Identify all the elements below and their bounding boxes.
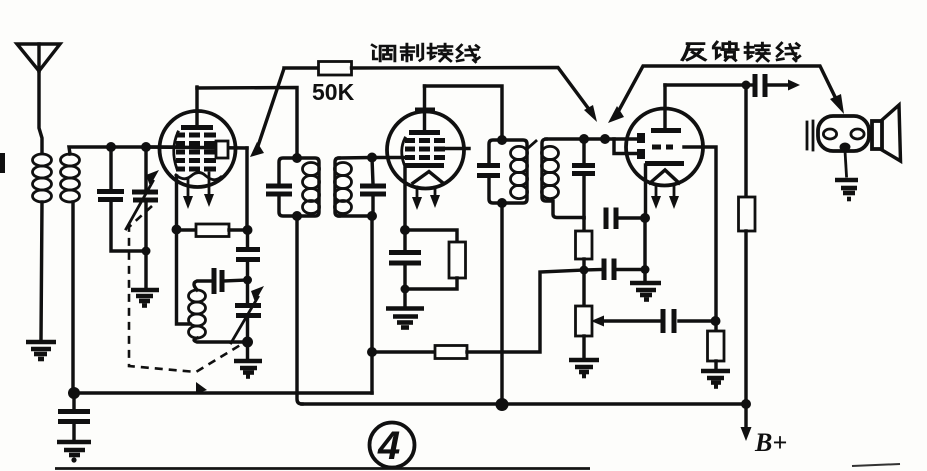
V1 grid side box — [216, 141, 228, 158]
resistor R5 (screen dropper) — [708, 331, 725, 369]
wire grid bus into tube V1 — [146, 147, 247, 148]
V3 cathode V — [650, 170, 679, 183]
V3 filament arrow right — [669, 186, 679, 209]
node V2 cathode gnd — [401, 285, 410, 294]
earphone unit — [818, 116, 869, 152]
antenna — [17, 44, 60, 152]
V3 cathode lead — [644, 165, 647, 218]
bus1 (AVC return) — [74, 391, 372, 394]
V1 grid out wire — [245, 148, 248, 230]
V1 cathode lead — [175, 176, 178, 229]
variable capacitor VC1 — [126, 147, 159, 288]
V2 left bracket — [402, 138, 405, 164]
node B (VC1 tap) — [141, 142, 151, 152]
coupling tick — [528, 141, 536, 148]
capacitor C5 (V3 grid) — [572, 139, 595, 218]
dashed gang link — [129, 206, 242, 372]
svg-text:4: 4 — [377, 424, 400, 468]
V3 lower bar — [645, 161, 684, 166]
coil L1 antenna primary — [33, 154, 52, 202]
B+ arrow — [741, 404, 752, 441]
node tank1 top — [292, 153, 302, 163]
node tank2 bottom — [497, 198, 507, 208]
tube V2 (IF amplifier) — [387, 112, 464, 189]
capacitor C6 (cathode coupling upper) — [606, 208, 645, 230]
tube V1 (converter) — [160, 111, 236, 187]
wire L2 top to grid bus — [69, 147, 176, 154]
potentiometer R4 (volume) — [576, 270, 593, 357]
V3 plate lead — [663, 85, 666, 128]
L3 bottom lead — [194, 338, 247, 342]
ground (osc) — [234, 342, 262, 377]
node IF1 sec top — [367, 153, 377, 163]
capacitor C3 (osc feedback) — [214, 268, 247, 294]
wire L1 bottom to ground — [41, 202, 42, 340]
svg-text:50K: 50K — [312, 79, 355, 105]
V2 top bar artifact — [415, 108, 435, 113]
ground (earphone) — [835, 180, 858, 199]
resistor R2 (V2 cathode bias) — [405, 230, 466, 289]
coil L2 antenna secondary — [61, 154, 80, 202]
node C1/VC1 bottom — [142, 247, 151, 256]
node IF1 sec bottom — [367, 211, 377, 221]
dashed link arrow on bus — [196, 382, 207, 394]
wire cathode tap to osc coil — [177, 229, 191, 324]
V1 grid rows — [176, 135, 216, 169]
L3 top lead — [194, 281, 211, 290]
ground (V3 cathode) — [630, 283, 661, 300]
IF2 secondary coil — [542, 139, 585, 218]
V2 plate lead — [423, 86, 426, 130]
node osc R left — [172, 225, 182, 235]
wire tank2 bottom to B+ bus — [500, 203, 503, 404]
bus2 (B+ rail) — [302, 402, 746, 405]
speaker input bars — [807, 121, 813, 150]
node AVC/R7 — [367, 347, 377, 357]
node osc R right — [243, 225, 253, 235]
wire cathode chain — [643, 218, 646, 280]
speaker horn — [872, 105, 901, 161]
V2 cathode lead — [403, 167, 406, 230]
V1 plate — [181, 125, 213, 130]
IF1 secondary coil — [335, 158, 352, 216]
ground (R5) — [701, 371, 730, 387]
wire AVC drop — [370, 216, 373, 393]
ground (V2 cathode) — [386, 289, 424, 328]
tank1 capacitor branch — [266, 158, 297, 216]
resistor R7 (AVC filter) — [372, 270, 584, 359]
node plate/output — [742, 81, 751, 90]
V1 filament arrow right — [204, 173, 214, 207]
V2 screen stub — [445, 147, 469, 150]
bottom scan line — [55, 467, 590, 470]
V2 filament arrow left — [412, 187, 422, 210]
ground (antenna coil) — [26, 342, 56, 359]
capacitor C1 — [97, 147, 146, 251]
capacitor C2 (osc) — [236, 230, 260, 303]
figure number 4 — [370, 423, 415, 469]
V3 grid stubs — [637, 133, 645, 159]
wire tank1 bottom to B+ bus — [297, 216, 302, 404]
wire plate V1 to tank1 — [197, 88, 297, 159]
node tank2 top — [497, 135, 507, 145]
V3 screen row — [652, 145, 673, 150]
svg-text:B+: B+ — [754, 428, 787, 457]
node bus2 B+ — [741, 399, 751, 409]
ground (VC1) — [131, 290, 159, 306]
capacitor C4 (V2 cathode bypass) — [389, 230, 421, 289]
wire IF1 sec bottom — [339, 214, 373, 217]
left edge scan mark — [0, 153, 5, 173]
ground (R4) — [569, 360, 599, 376]
V3 grid jog — [614, 139, 639, 154]
capacitor C10 (wiper coupling) — [663, 309, 674, 333]
V2 lower bar — [404, 163, 444, 168]
tank2 capacitor branch — [477, 140, 502, 203]
node AVC join — [580, 266, 589, 275]
node osc mid — [243, 276, 252, 285]
earphone ground lead — [845, 151, 847, 176]
V1 left bracket — [174, 132, 178, 169]
ground (C9) — [57, 442, 91, 463]
node bus1 left — [68, 387, 80, 399]
V1 plate lead — [195, 87, 198, 125]
V1 cathode wave — [176, 173, 221, 180]
V2 filament arrow right — [430, 187, 440, 208]
node V3 cathode top — [640, 213, 650, 223]
V3 screen lead out — [684, 147, 716, 331]
capacitor C-IF1 (secondary trimmer) — [360, 158, 386, 216]
wire L2 bottom down to bus1 — [71, 202, 74, 393]
variable capacitor VC2 (osc tuning) — [231, 286, 264, 343]
node V3 grid — [600, 134, 610, 144]
node grid cap top — [579, 134, 589, 144]
wire V3 plate top — [665, 83, 746, 86]
V2 cathode V — [413, 172, 443, 184]
node bus2/tank2 — [496, 398, 509, 411]
node screen chain — [711, 316, 721, 326]
V2 plate — [409, 130, 440, 135]
R4 wiper arrow wire — [591, 316, 715, 327]
resistor R3 (grid leak chain upper) — [576, 218, 593, 270]
label tiaozhi jiexian (modulation connection) — [372, 44, 479, 62]
capacitor C7 (lower) — [584, 259, 645, 281]
wire mod line + resistor 50K — [250, 62, 597, 158]
node osc bottom — [242, 337, 253, 348]
coil L3 (oscillator) — [189, 290, 206, 338]
wire IF2 sec top to V3 grid — [546, 137, 639, 140]
wire IF1 sec top to V2 grid — [339, 156, 405, 160]
tank1 coil branch (IF1 primary) — [297, 158, 320, 216]
wire feedback line — [608, 66, 844, 123]
V1 filament arrow left — [183, 179, 193, 209]
resistor R1 (osc grid leak) — [176, 224, 248, 237]
V3 plate — [651, 128, 681, 133]
node tank1 bottom — [292, 211, 302, 221]
node V2 cathode — [400, 225, 410, 235]
capacitor C8 (output coupling) — [746, 74, 800, 97]
capacitor C9 (line bypass) — [58, 393, 90, 439]
label fankui jiexian (feedback connection) — [682, 42, 799, 61]
tube V3 (audio output) — [626, 109, 703, 186]
V2 grid rows — [405, 141, 445, 158]
tank2 coil branch (IF2 primary) — [502, 140, 528, 203]
wire V2 plate to tank2 — [425, 86, 503, 140]
resistor R6 (plate load) — [739, 85, 756, 404]
node A (C1 tap) — [106, 142, 116, 152]
V3 filament arrow left — [651, 186, 661, 209]
node cathode gnd join — [641, 265, 650, 274]
